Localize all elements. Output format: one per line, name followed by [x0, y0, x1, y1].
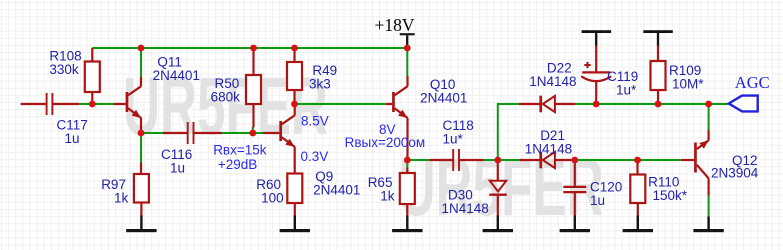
diode D22: [519, 96, 575, 113]
junction C116 right node: [249, 130, 256, 137]
junction C120 node: [571, 157, 578, 164]
wire D22 anode to AGC node: [575, 103, 729, 105]
transistor Q9: [263, 104, 295, 174]
svg-text:0.3V: 0.3V: [301, 149, 329, 164]
label Q9 2N4401: [313, 169, 360, 198]
ground under D30: [483, 216, 513, 233]
ground under C120: [560, 216, 590, 233]
wire C116 right to Q9 base: [222, 132, 263, 134]
svg-text:1k: 1k: [380, 189, 395, 204]
svg-text:3k3: 3k3: [309, 76, 331, 91]
wire Q12 emitter riser: [708, 104, 710, 130]
wire Q11 emitter node row: [141, 132, 163, 134]
svg-text:2N4401: 2N4401: [153, 68, 200, 83]
resistor R108: [85, 48, 100, 104]
label R49 3k3: [309, 63, 337, 92]
svg-text:150k*: 150k*: [653, 188, 688, 203]
label R108 330k: [49, 48, 81, 77]
wire Q11 collector: [140, 48, 142, 78]
ground under R65: [392, 216, 422, 233]
junction rail +18V: [404, 45, 411, 52]
power terminal above R109: [643, 30, 673, 46]
label Q12 2N3904: [711, 153, 759, 181]
label R60 100: [256, 177, 283, 206]
svg-text:Rвых=200ом: Rвых=200ом: [345, 135, 426, 150]
label R50 680k: [211, 76, 241, 105]
wire 8.5V node to Q10 base: [295, 103, 386, 105]
capacitor C118: [430, 149, 484, 171]
wire D21 anode to Q12 base: [571, 159, 681, 161]
wire Q10 collector: [406, 48, 408, 76]
wire Q12 collector to ground: [708, 195, 710, 217]
svg-text:1u*: 1u*: [443, 131, 464, 146]
ground under R60: [280, 216, 310, 233]
transistor Q12: [681, 130, 709, 196]
power terminal above C119: [582, 30, 612, 46]
svg-text:1u*: 1u*: [616, 82, 637, 97]
wire R50 bottom: [252, 127, 254, 133]
svg-text:100: 100: [261, 191, 284, 206]
label C120 1u: [590, 179, 622, 208]
junction AGC node: [705, 101, 712, 108]
resistor R49: [287, 48, 302, 104]
label C116 1u: [161, 147, 192, 176]
label Q10 2N4401: [420, 77, 467, 106]
junction rail R49: [291, 45, 298, 52]
wire input lead: [22, 103, 47, 105]
label C119 1u*: [607, 69, 638, 98]
watermark UR5FER upper-left: [123, 61, 328, 152]
svg-text:+29dB: +29dB: [218, 157, 257, 172]
svg-text:1N4148: 1N4148: [525, 141, 572, 156]
power terminal +18V: [400, 33, 415, 47]
transistor Q10: [386, 76, 408, 160]
resistor R65: [400, 168, 415, 217]
svg-text:1u: 1u: [170, 160, 185, 175]
label Q11 2N4401: [153, 54, 200, 83]
watermark UR5FER lower-right: [399, 142, 604, 233]
label AGC: [735, 73, 770, 92]
ground under Q12: [693, 217, 723, 233]
label 8.5V node voltage: [301, 114, 329, 129]
resistor R110: [630, 160, 645, 216]
diode D21: [520, 152, 572, 169]
label Rvx gain annotation: [213, 143, 267, 172]
label R109 10M*: [669, 63, 704, 92]
svg-text:8.5V: 8.5V: [301, 114, 329, 129]
svg-text:2N4401: 2N4401: [313, 183, 360, 198]
capacitor C117: [47, 93, 79, 115]
resistor R97: [134, 163, 149, 217]
junction Q10 emitter node: [404, 157, 411, 164]
junction rail R50: [250, 45, 257, 52]
svg-text:1N4148: 1N4148: [529, 74, 576, 89]
label R110 150k*: [648, 174, 688, 203]
capacitor C119: [581, 46, 611, 105]
wire input node: [78, 103, 113, 105]
label 8V node voltage: [379, 122, 396, 137]
resistor R60: [287, 174, 302, 217]
capacitor C116: [163, 122, 222, 144]
label Rout annotation: [345, 135, 426, 150]
label R97 1k: [101, 177, 128, 206]
wire +18V rail: [92, 47, 407, 49]
svg-text:2N3904: 2N3904: [711, 165, 759, 180]
label D30 1N4148: [442, 188, 489, 216]
svg-text:1N4148: 1N4148: [442, 201, 489, 216]
junction input node: [89, 101, 96, 108]
label +18V: [375, 15, 415, 35]
svg-text:1u: 1u: [590, 193, 605, 208]
ground under R110: [623, 216, 653, 233]
wire C118 right: [484, 159, 498, 161]
label C117 1u: [57, 118, 88, 147]
svg-text:AGC: AGC: [735, 73, 770, 92]
junction R110 node: [634, 157, 641, 164]
transistor Q11: [113, 77, 141, 133]
svg-text:330k: 330k: [49, 62, 79, 77]
label D21 1N4148: [525, 128, 572, 157]
label 0.3V node voltage: [301, 149, 329, 164]
junction rail Q11 collector: [138, 45, 145, 52]
port AGC: [729, 96, 758, 112]
label C118 1u*: [443, 118, 474, 147]
svg-text:2N4401: 2N4401: [420, 90, 467, 105]
wire R97 top: [140, 133, 142, 163]
junction R109 node: [655, 101, 662, 108]
svg-text:+18V: +18V: [375, 15, 415, 35]
svg-text:10M*: 10M*: [672, 76, 704, 91]
junction 8.5V node: [291, 101, 298, 108]
label D22 1N4148: [529, 61, 576, 90]
junction C119 node: [593, 101, 600, 108]
wire Q10 emitter to C118: [407, 159, 430, 161]
svg-text:680k: 680k: [211, 90, 241, 105]
svg-text:Rвх=15k: Rвх=15k: [213, 143, 267, 158]
capacitor C120: [563, 160, 586, 216]
resistor R50: [246, 48, 261, 128]
label R65 1k: [368, 175, 395, 204]
ground under R97: [126, 216, 156, 233]
resistor R109: [651, 46, 666, 105]
diode D30: [489, 160, 506, 216]
junction Q11 emitter node: [138, 130, 145, 137]
wire node D to D22 riser: [498, 104, 519, 160]
svg-text:1k: 1k: [114, 191, 129, 206]
junction D30 node: [494, 157, 501, 164]
svg-text:1u: 1u: [65, 131, 80, 146]
wire node D to D21: [498, 159, 520, 161]
wire R65 top: [406, 160, 408, 168]
